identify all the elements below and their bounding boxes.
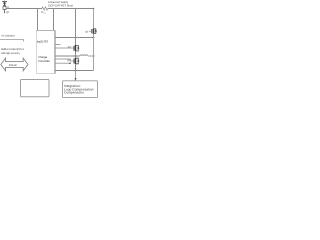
svg-text:AC Detection: AC Detection	[1, 34, 15, 37]
svg-text:Q3: Q3	[85, 30, 89, 33]
svg-text:SMBus Control (I2C) &: SMBus Control (I2C) &	[1, 48, 24, 51]
svg-text:Enhanced Safety: Enhanced Safety	[48, 1, 68, 4]
svg-text:Q1: Q1	[6, 11, 10, 14]
svg-text:Compensator: Compensator	[64, 91, 85, 95]
svg-text:AC: AC	[43, 11, 46, 14]
svg-text:with high accuracy: with high accuracy	[1, 52, 21, 55]
svg-text:Charge: Charge	[38, 56, 47, 59]
svg-text:OCP-OVP FET Short: OCP-OVP FET Short	[48, 5, 73, 8]
svg-text:bq25703: bq25703	[37, 39, 48, 43]
svg-text:500kHz: 500kHz	[9, 64, 18, 67]
svg-text:Controller: Controller	[38, 60, 50, 63]
